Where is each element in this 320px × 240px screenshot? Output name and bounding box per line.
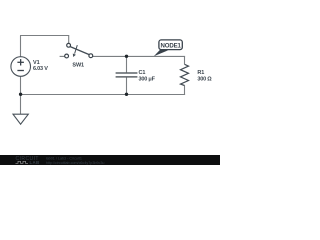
svg-text:LAB: LAB [30, 160, 40, 165]
footer logo waveform [16, 161, 29, 163]
junction C1 bottom [125, 93, 128, 96]
svg-text:C1: C1 [139, 70, 146, 76]
svg-text:300 μF: 300 μF [139, 77, 156, 83]
svg-text:V1: V1 [33, 60, 40, 66]
voltage source V1 [11, 57, 31, 77]
wire top rail [20, 35, 69, 37]
svg-text:SW1: SW1 [72, 63, 84, 69]
footer bar [0, 155, 220, 165]
resistor R1 [181, 64, 189, 85]
wire R1 bottom lead [184, 85, 186, 94]
wire V1 top lead [20, 36, 22, 58]
capacitor C1 [116, 73, 138, 77]
svg-text:http://circuitlab.com/c6c4y7p3: http://circuitlab.com/c6c4y7p3b9c3u [46, 161, 105, 165]
wire open throw stub [60, 55, 65, 57]
ground [13, 114, 28, 124]
svg-text:6.03 V: 6.03 V [33, 66, 48, 72]
wire bottom rail [21, 94, 186, 96]
node NODE1 flag box [159, 40, 182, 50]
svg-text:NODE1: NODE1 [161, 43, 182, 50]
switch SW1 blade [70, 47, 89, 55]
wire C1 top lead [126, 56, 128, 73]
svg-text:300 Ω: 300 Ω [197, 77, 212, 83]
svg-text:R1: R1 [197, 70, 204, 76]
wire V1 bottom lead [20, 76, 22, 94]
wire ground lead [20, 95, 22, 115]
wire R1 top lead [184, 56, 186, 64]
switch SW1 terminal right [89, 54, 93, 58]
junction C1 top [125, 55, 128, 58]
wire switch top feed [68, 36, 70, 44]
wire C1 bottom lead [126, 77, 128, 95]
svg-text:lab01 / Lab3 - Circuit1: lab01 / Lab3 - Circuit1 [46, 157, 82, 161]
switch SW1 terminal top-left [67, 43, 71, 47]
switch SW1 terminal bottom-left [65, 54, 69, 58]
wire node rail NODE1 [93, 55, 186, 57]
switch SW1 arrow [73, 45, 78, 57]
node NODE1 flag tail [154, 50, 169, 57]
junction V1 bottom rail [19, 93, 22, 96]
